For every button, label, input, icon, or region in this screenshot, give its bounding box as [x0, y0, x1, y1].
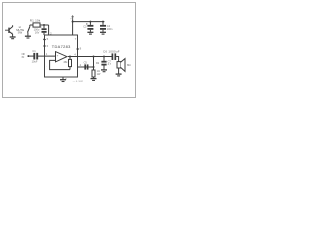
speaker LS1: [117, 59, 125, 72]
svg-text:.: .: [46, 63, 47, 67]
label R1 10k: [30, 18, 41, 22]
svg-text:— s. text: — s. text: [73, 79, 84, 83]
svg-text:100n: 100n: [107, 28, 113, 31]
wire to speaker: [116, 57, 119, 62]
pin 8 stub right: [76, 48, 79, 50]
note below box: [73, 79, 84, 83]
wire speaker to ground: [118, 68, 120, 74]
ground (S1): [25, 36, 31, 38]
pin label bootstrap: [80, 63, 82, 67]
svg-text:10uF: 10uF: [32, 59, 38, 63]
pin 1 label: [43, 37, 46, 41]
svg-text:C5: C5: [84, 62, 88, 65]
pin label at input: [46, 52, 48, 56]
svg-text:C3: C3: [83, 25, 87, 28]
ground (C4): [100, 32, 106, 34]
svg-text:3: 3: [65, 77, 67, 81]
wire C1 to pin 1: [38, 55, 56, 57]
capacitor C1: [32, 49, 38, 63]
wire supply down to pin 7: [72, 20, 74, 35]
pin 7 label: [75, 37, 77, 41]
ground (speaker): [116, 74, 122, 76]
svg-text:SW: SW: [18, 31, 23, 35]
svg-text:IN: IN: [22, 55, 25, 59]
IN terminal: [22, 52, 26, 59]
svg-text:5: 5: [47, 37, 49, 41]
wire output inside: [68, 56, 112, 58]
ground (Q1 emitter): [10, 37, 16, 39]
svg-text:R2: R2: [96, 62, 100, 65]
wire input: [29, 55, 33, 57]
pin 3 stub gnd: [62, 77, 64, 79]
svg-text:4,7: 4,7: [108, 63, 112, 66]
pin 5 stub: [43, 39, 46, 41]
svg-text:TDA7283: TDA7283: [52, 44, 71, 49]
wire feedback loop: [50, 60, 70, 69]
node A (R1/C2 junction): [43, 24, 45, 26]
wire mute line: [30, 24, 49, 26]
node bootstrap: [93, 66, 95, 68]
ground (pin 3): [60, 80, 66, 82]
resistor Rf internal: [69, 57, 71, 60]
svg-text:+: +: [57, 54, 59, 58]
svg-text:45k: 45k: [63, 61, 68, 64]
svg-text:6: 6: [47, 44, 49, 48]
op-amp triangle: [56, 52, 67, 62]
svg-text:+: +: [70, 17, 72, 20]
ground (R2): [91, 79, 97, 81]
node output/Rf: [69, 56, 71, 58]
pin 2 label: [50, 31, 52, 35]
label R2: [96, 62, 100, 65]
node output branch: [93, 56, 95, 58]
label Rf: [63, 61, 68, 64]
transistor Q1: [5, 25, 13, 36]
capacitor C5: [84, 62, 88, 70]
svg-text:R1 10k: R1 10k: [30, 18, 41, 22]
pin label left low: [46, 63, 47, 67]
svg-text:1W: 1W: [97, 73, 101, 76]
svg-text:8Ω: 8Ω: [127, 63, 131, 67]
label TDA7283: [52, 44, 71, 49]
svg-text:16V: 16V: [35, 30, 40, 34]
svg-text:C6 1000uF: C6 1000uF: [103, 50, 120, 54]
capacitor C3: [83, 21, 93, 32]
svg-text:8: 8: [80, 47, 82, 51]
resistor R1: [33, 23, 40, 27]
capacitor C7 shunt: [101, 57, 111, 70]
pin 4 label output: [74, 53, 76, 57]
node shunt cap: [103, 56, 105, 58]
wire down to pin 2: [48, 25, 50, 35]
ground (C3): [87, 32, 93, 34]
pin 6 stub: [43, 45, 46, 47]
svg-text:C1: C1: [32, 49, 36, 53]
switch S1: [28, 25, 30, 36]
node supply rail: [72, 21, 74, 23]
wire zobel: [93, 57, 95, 71]
svg-text:7: 7: [75, 37, 77, 41]
capacitor C2: [34, 25, 47, 35]
supply +9V arrow: [70, 16, 73, 21]
wire supply rail: [73, 21, 105, 23]
resistor R2: [92, 70, 95, 77]
wire bootstrap: [78, 66, 94, 68]
label 8 ohm: [127, 63, 131, 67]
capacitor C6 series: [112, 53, 115, 60]
capacitor C4: [100, 21, 113, 32]
ground (C7): [101, 70, 107, 72]
svg-text:-: -: [57, 58, 58, 62]
op-amp U1 box: [45, 35, 78, 77]
label S1 MUTE SW: [16, 25, 24, 35]
label C6 1000uF: [103, 50, 120, 54]
border frame: [3, 3, 136, 98]
